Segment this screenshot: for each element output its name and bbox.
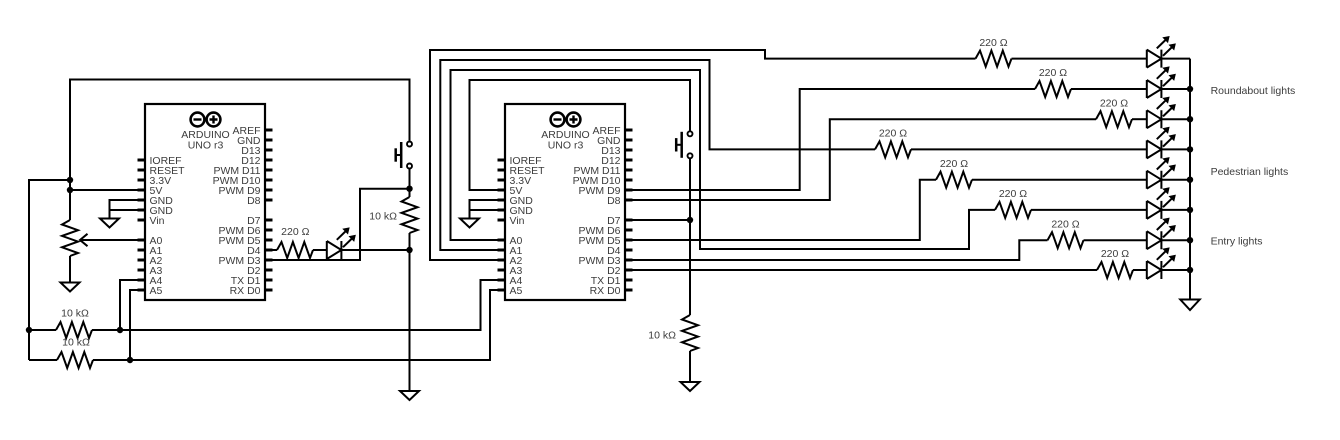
wire U1 GND pins [110, 200, 146, 218]
node SDA junction [117, 327, 123, 333]
svg-text:220 Ω: 220 Ω [879, 128, 907, 140]
wire R11 to LED7 [1031, 209, 1147, 211]
wire U2 D8 to row 3 [625, 119, 1096, 200]
resistor R11 220 &#937; (row 6) [995, 202, 1031, 218]
wire R7 to LED3 [1071, 88, 1147, 90]
wire LED2 cathode to bus [1161, 58, 1190, 60]
wire U2 GND pins [470, 200, 506, 218]
wire U2 D5 to row 5 [625, 180, 936, 240]
wire R13 to LED9 [1133, 269, 1147, 271]
wire LED9 cathode to bus [1161, 269, 1190, 271]
LED D1 [327, 228, 355, 259]
svg-text:10 kΩ: 10 kΩ [648, 330, 676, 342]
wire U1 D3 to button node [265, 189, 410, 260]
wire R1 leads [409, 189, 411, 250]
svg-text:220 Ω: 220 Ω [999, 188, 1027, 200]
svg-text:220 Ω: 220 Ω [1039, 67, 1067, 79]
resistor R1 10 k&#937; [402, 197, 418, 233]
node bus row 7 [1187, 237, 1193, 243]
LED D7 (row 6) [1147, 188, 1175, 219]
node bus row 4 [1187, 146, 1193, 152]
LED D8 (row 7) [1147, 218, 1175, 249]
wire U2 D7 [625, 219, 690, 221]
ground U2 [460, 219, 479, 228]
wire U1 5V pin to junction [70, 189, 145, 191]
resistor R4 10 k&#937; [57, 352, 93, 368]
wire LED7 cathode to bus [1161, 209, 1190, 211]
pushbutton S2 [676, 131, 692, 158]
ground R1 [400, 391, 419, 400]
svg-text:Entry lights: Entry lights [1211, 236, 1263, 248]
LED D9 (row 8) [1147, 248, 1175, 279]
wire R10 to LED6 [972, 179, 1147, 181]
svg-text:220 Ω: 220 Ω [1051, 218, 1079, 230]
wire U2 A1 to row 4 [440, 60, 875, 250]
resistor R3 10 k&#937; [56, 322, 92, 338]
node 5V junction at potentiometer top [67, 187, 73, 193]
wire U2 5V to pushbutton S2 [470, 80, 691, 190]
wire to ground [409, 250, 411, 390]
wire LED cathode bus [1189, 59, 1191, 299]
wire R12 to LED8 [1084, 239, 1147, 241]
wire S1 bottom to node [409, 169, 411, 189]
potentiometer RP1 body [62, 220, 78, 256]
ground R2 [681, 382, 700, 391]
svg-text:10 kΩ: 10 kΩ [62, 337, 90, 349]
wire potentiometer top lead [69, 190, 71, 220]
ground potentiometer [61, 283, 80, 292]
wire SCL pull-up lead [29, 359, 57, 361]
LED D4 (row 3) [1147, 97, 1175, 128]
wire R2 to ground [689, 351, 691, 381]
wire U2 D2 to row 8 [625, 269, 1097, 271]
wire R5 to LED D1 [313, 249, 327, 251]
resistor R6 220 &#937; (row 1) [976, 51, 1012, 67]
wire LED4 cathode to bus [1161, 118, 1190, 120]
resistor R5 220 &#937; [277, 242, 313, 258]
wire U1 D4 to resistor [265, 249, 277, 251]
resistor R10 220 &#937; (row 5) [936, 172, 972, 188]
potentiometer wiper arrow [80, 234, 88, 246]
resistor R2 10 k&#937; [682, 315, 698, 351]
LED D6 (row 5) [1147, 158, 1175, 189]
svg-text:220 Ω: 220 Ω [281, 226, 309, 238]
svg-text:220 Ω: 220 Ω [1100, 97, 1128, 109]
pushbutton S1 [396, 142, 412, 169]
node button S1 output [406, 186, 412, 192]
wire R9 to LED5 [911, 148, 1147, 150]
node bus row 5 [1187, 177, 1193, 183]
svg-text:10 kΩ: 10 kΩ [61, 307, 89, 319]
wire SDA pull-up lead [29, 329, 56, 331]
svg-text:Roundabout lights: Roundabout lights [1211, 85, 1296, 97]
wire S2 bottom to node [689, 159, 691, 220]
node left-bus tap [67, 177, 73, 183]
wire U2 D3 to row 7 [625, 240, 1048, 260]
node button S2 output [687, 217, 693, 223]
svg-text:Pedestrian lights: Pedestrian lights [1211, 166, 1289, 178]
svg-text:220 Ω: 220 Ω [1101, 248, 1129, 260]
wire U1 A0 to wiper [81, 239, 146, 241]
wire LED8 cathode to bus [1161, 239, 1190, 241]
wire node to R2 [689, 220, 691, 315]
wire U1 A5 [130, 290, 145, 360]
ground U1 [100, 219, 119, 228]
wire SCL to U2 A5 [93, 290, 505, 360]
wire R6 to LED2 [1012, 58, 1147, 60]
wire 5V riser to pushbutton S1 top [70, 80, 410, 191]
node bus row 6 [1187, 207, 1193, 213]
node R1 bottom [406, 247, 412, 253]
resistor R7 220 &#937; (row 2) [1035, 81, 1071, 97]
resistor R12 220 &#937; (row 7) [1048, 232, 1084, 248]
svg-text:10 kΩ: 10 kΩ [369, 211, 397, 223]
wire LED6 cathode to bus [1161, 179, 1190, 181]
wire LED D1 cathode to node [341, 249, 409, 251]
wire U2 A0 to row 6 [451, 70, 996, 249]
LED D5 (row 4) [1147, 127, 1175, 158]
wire U2 A2 to row 1 [430, 50, 976, 260]
resistor R13 220 &#937; (row 8) [1097, 262, 1133, 278]
node bus row 2 [1187, 86, 1193, 92]
LED D3 (row 2) [1147, 67, 1175, 98]
wire LED3 cathode to bus [1161, 88, 1190, 90]
Arduino U2 (right, ARDUINO UNO r3) [498, 104, 633, 300]
wire R8 to LED4 [1132, 118, 1147, 120]
wire 5V to left bus [29, 180, 70, 360]
svg-text:220 Ω: 220 Ω [940, 158, 968, 170]
wire U1 A4 [120, 280, 145, 330]
node SDA pull-up left [26, 327, 32, 333]
node bus row 3 [1187, 116, 1193, 122]
wire U2 D9 to row 2 [625, 89, 1035, 190]
LED D2 (row 1) [1147, 37, 1175, 68]
resistor R8 220 &#937; (row 3) [1096, 111, 1132, 127]
wire potentiometer bottom lead [69, 256, 71, 282]
Arduino U1 (left, ARDUINO UNO r3) [138, 104, 273, 300]
ground LED bus [1180, 300, 1199, 311]
svg-text:220 Ω: 220 Ω [979, 37, 1007, 49]
wire SDA to U2 A4 [92, 280, 505, 330]
node bus row 8 [1187, 267, 1193, 273]
resistor R9 220 &#937; (row 4) [875, 141, 911, 157]
node SCL junction [127, 357, 133, 363]
wire LED5 cathode to bus [1161, 148, 1190, 150]
